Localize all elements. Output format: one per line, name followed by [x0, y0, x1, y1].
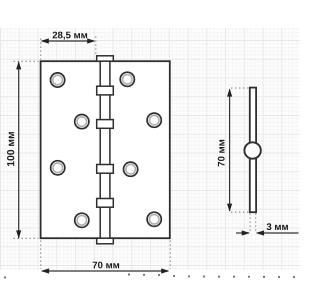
dim 3mm extension left (dotted) — [249, 214, 251, 233]
hinge plate (front view) — [41, 61, 170, 238]
hole row4 left — [75, 213, 89, 227]
dim 3mm arrow left pointing right — [242, 230, 250, 235]
bottom dotted marks row — [4, 273, 295, 278]
dim 28,5mm extension right (dotted) — [95, 37, 97, 56]
dim 3mm extension right (dotted) — [255, 214, 257, 233]
side view knuckle circle — [244, 142, 260, 158]
pin collar 1 — [97, 86, 114, 95]
dim 28,5mm arrow left — [41, 38, 49, 43]
hole row2 left — [75, 115, 89, 129]
dim 3mm line left — [236, 232, 249, 234]
dim 70mm bottom extension left (dotted) — [40, 241, 42, 270]
side dim 70mm arrow top — [227, 88, 232, 96]
dim 28,5mm extension left (dotted) — [40, 39, 42, 60]
dim 70mm bottom line — [42, 270, 168, 272]
dim 100mm label — [7, 132, 14, 166]
graph paper grid — [0, 28, 300, 270]
hole row1 right — [120, 72, 134, 86]
side dim 70mm line — [229, 89, 231, 211]
pin bottom cap — [97, 238, 114, 244]
dim 28,5mm line — [42, 40, 94, 42]
dim 28,5mm arrow right — [87, 38, 95, 43]
dim 100mm arrow top — [16, 61, 21, 69]
hole row1 left — [51, 73, 65, 87]
side dim 70mm connector bottom (dotted) — [231, 211, 250, 213]
dim 70mm bottom arrow left — [41, 268, 49, 273]
hole row2 right — [147, 113, 161, 127]
dim 3mm line right — [257, 232, 299, 234]
side view leaf bar — [250, 88, 256, 213]
side dim 70mm label — [218, 140, 225, 166]
dim 28,5mm label — [53, 32, 88, 40]
dim 70mm bottom arrow right — [161, 268, 169, 273]
pin top cap — [97, 56, 114, 61]
pin collar 2 — [97, 120, 114, 129]
dim 100mm extension top (dotted) — [14, 60, 39, 62]
pin collar 3 — [97, 165, 114, 174]
side dim 70mm arrow bottom — [227, 204, 232, 212]
pin collar 4 — [97, 199, 114, 208]
dim 100mm extension bottom (dotted) — [14, 237, 39, 239]
dim 70mm bottom label — [93, 262, 119, 269]
hole row3 right — [124, 162, 138, 176]
dim 100mm arrow bottom — [16, 230, 21, 238]
dim 70mm bottom extension right (dotted) — [169, 241, 171, 270]
side dim 70mm connector top (dotted) — [231, 87, 250, 89]
hole row3 left — [51, 161, 65, 175]
dim 100mm line — [18, 62, 20, 238]
dim 3mm arrow right pointing left — [256, 230, 264, 235]
dim 3mm label — [267, 223, 288, 230]
hole row4 right — [147, 212, 161, 226]
pin shaft — [100, 61, 110, 238]
